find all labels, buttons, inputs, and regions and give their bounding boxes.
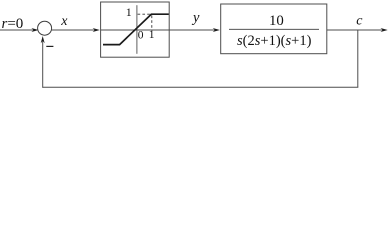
saturation curve: [103, 14, 169, 44]
saturation block (nonlinearity): [101, 2, 170, 57]
dashed line horizontal to saturation knee: [138, 13, 152, 15]
wire: input to summing junction: [0, 28, 39, 32]
vertical axis: [136, 5, 138, 54]
transfer function block G(s)=10/(s(2s+1)(s+1)): [221, 4, 327, 54]
svg-text:c: c: [356, 14, 363, 29]
feedback takeoff junction / wire: feedback down segment: [357, 30, 359, 87]
summing junction: [38, 21, 52, 35]
svg-text:x: x: [60, 14, 68, 29]
wire: saturation block to transfer function block: [169, 28, 220, 32]
svg-text:0: 0: [138, 29, 144, 41]
svg-text:s(2s+1)(s+1): s(2s+1)(s+1): [237, 33, 312, 49]
horizontal axis: [101, 29, 170, 31]
svg-text:1: 1: [149, 29, 155, 41]
svg-text:1: 1: [126, 5, 132, 19]
wire: output with arrow: [327, 28, 388, 32]
block frame: [221, 4, 327, 54]
svg-text:10: 10: [269, 13, 284, 29]
block frame: [101, 2, 170, 57]
svg-text:y: y: [191, 10, 200, 26]
wire: summing junction to saturation block: [52, 28, 100, 32]
wire: feedback bottom segment: [43, 86, 359, 88]
wire: feedback up segment into summing junction: [41, 36, 45, 88]
minus sign: [46, 45, 53, 47]
dashed line vertical from knee to axis: [151, 16, 153, 30]
fraction bar: [229, 28, 319, 30]
